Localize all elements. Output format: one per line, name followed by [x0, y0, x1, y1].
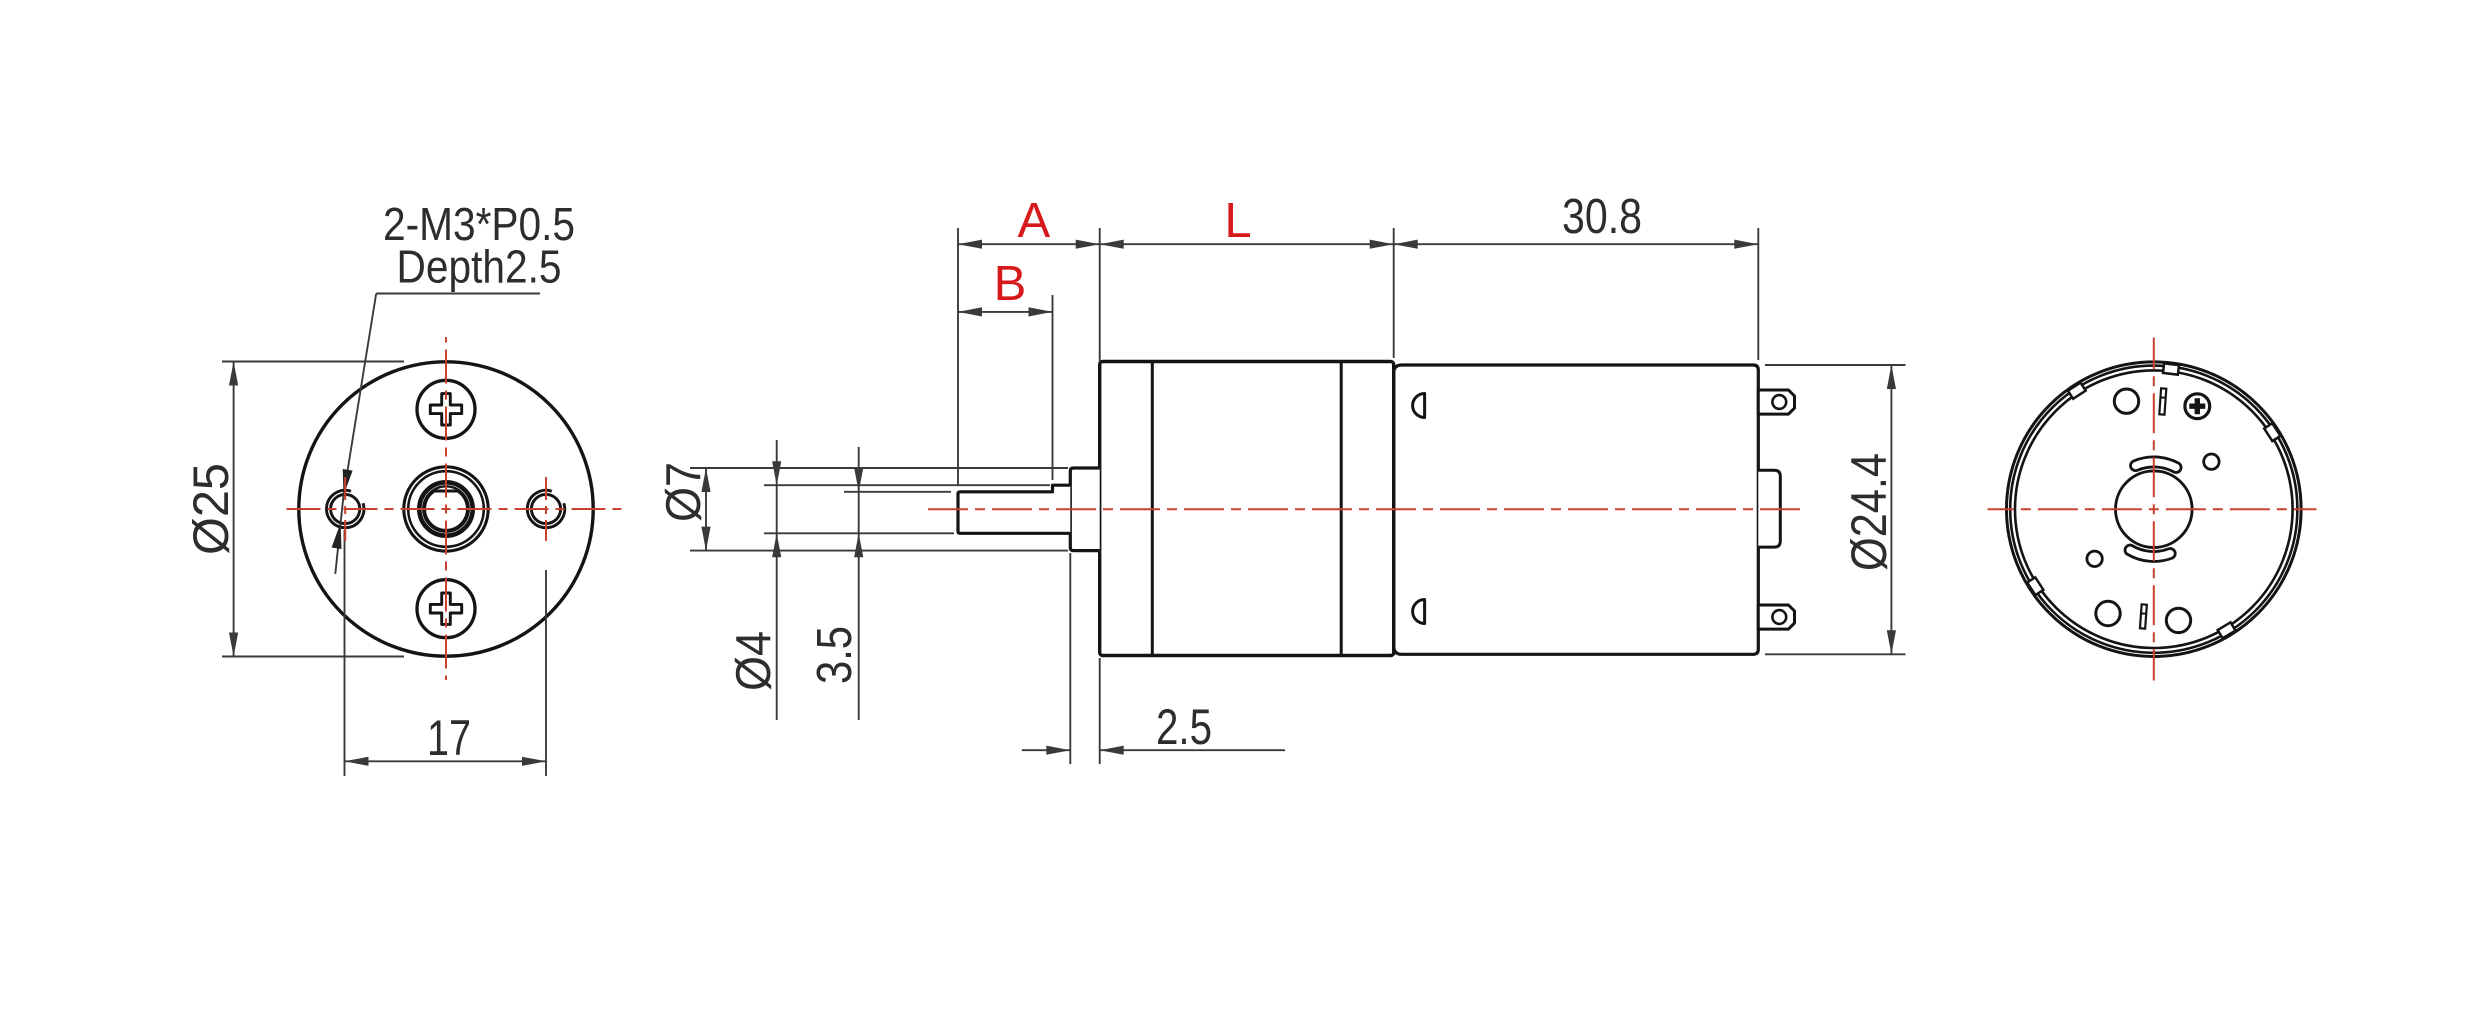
svg-text:Ø24.4: Ø24.4 — [1841, 453, 1897, 571]
svg-text:Depth2.5: Depth2.5 — [397, 241, 562, 293]
svg-text:3.5: 3.5 — [808, 626, 862, 684]
svg-text:L: L — [1224, 194, 1251, 248]
svg-text:Ø25: Ø25 — [183, 463, 239, 555]
svg-text:Ø7: Ø7 — [657, 462, 711, 522]
svg-text:Ø4: Ø4 — [727, 631, 781, 691]
svg-text:30.8: 30.8 — [1562, 190, 1642, 244]
svg-text:2.5: 2.5 — [1156, 699, 1212, 755]
svg-text:17: 17 — [427, 710, 471, 766]
svg-text:A: A — [1018, 194, 1051, 248]
svg-text:B: B — [994, 257, 1027, 311]
